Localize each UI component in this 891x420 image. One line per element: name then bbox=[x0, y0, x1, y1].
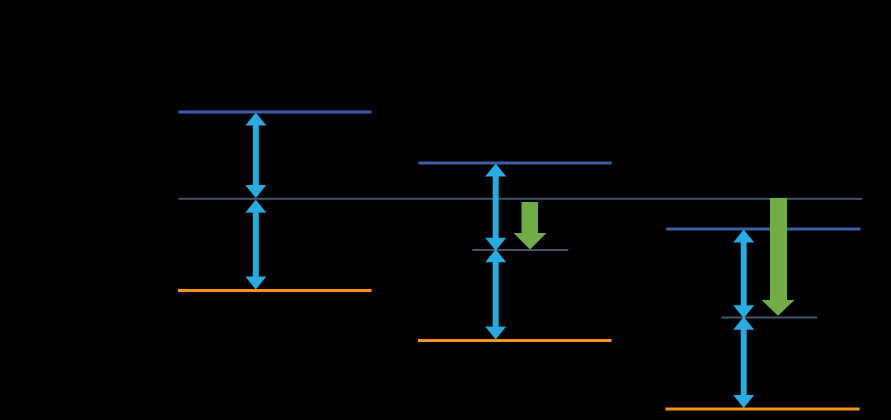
middle group top level line (blue) bbox=[418, 162, 611, 165]
middle group lower cyan double arrow bbox=[485, 249, 506, 339]
right group lower cyan double arrow bbox=[733, 317, 754, 408]
left group bottom level line (orange) bbox=[178, 289, 372, 292]
left group lower cyan double arrow bbox=[245, 200, 266, 290]
middle group green down block arrow bbox=[514, 202, 547, 250]
right group bottom level line (orange) bbox=[665, 408, 859, 411]
right group green down block arrow bbox=[762, 198, 795, 316]
right group top level line (blue) bbox=[666, 228, 860, 231]
middle group bottom level line (orange) bbox=[418, 339, 612, 342]
right group upper cyan double arrow bbox=[733, 230, 754, 319]
left group top level line (blue) bbox=[178, 111, 371, 114]
middle group short reference line (gray-blue) bbox=[472, 249, 568, 251]
left group upper cyan double arrow bbox=[245, 113, 266, 199]
middle group upper cyan double arrow bbox=[485, 164, 506, 251]
full-width reference line (gray-blue) bbox=[179, 198, 863, 200]
right group short reference line (gray-blue) bbox=[721, 317, 817, 319]
